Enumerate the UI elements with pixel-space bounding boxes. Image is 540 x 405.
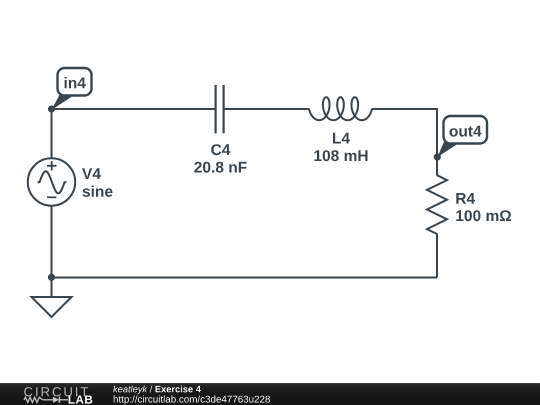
C4 value label 20.8 nF (194, 162, 246, 173)
node label in4: box (58, 68, 92, 96)
CircuitLab logo: CIRCUIT text (24, 387, 88, 396)
node dot: in4 junction (48, 105, 55, 112)
R4 reference label (456, 193, 475, 204)
wire: R4 bottom to bottom-right corner (436, 234, 438, 278)
node label in4: text (65, 77, 86, 88)
node label in4: pointer wedge (52, 95, 75, 110)
CircuitLab logo: wire to diode (43, 399, 53, 401)
V4 sine waveform (38, 171, 67, 193)
wire: C4 right plate to L4 left lead (224, 108, 310, 110)
resistor R4 (427, 175, 447, 234)
CircuitLab logo: LAB text (69, 396, 93, 404)
L4 reference label (333, 133, 350, 144)
CircuitLab logo: diode (53, 397, 59, 403)
V4 plus sign (47, 161, 57, 170)
wire: V4 bottom to ground node (51, 206, 53, 278)
wire: in4 node to C4 left plate (52, 108, 216, 110)
node label out4: pointer wedge (438, 142, 462, 157)
wire: ground stem (51, 278, 53, 298)
node dot: ground junction (48, 274, 55, 281)
inductor L4 (309, 97, 372, 120)
CircuitLab logo: resistor zigzag (24, 397, 43, 402)
wire: bottom rail (52, 277, 438, 279)
C4 reference label (211, 144, 230, 155)
V4 type label sine (83, 186, 113, 197)
V4 reference label (82, 168, 101, 179)
wire: out4 node to R4 top (436, 157, 438, 176)
node dot: out4 junction (434, 153, 441, 160)
wire: L4 right lead to top-right corner down to out4 node (372, 109, 437, 158)
footer url line (114, 395, 270, 404)
capacitor C4 (216, 85, 224, 133)
voltage source V4 circle (28, 158, 75, 205)
footer author/title line: keatleyk / Exercise 4 (113, 386, 201, 395)
node label out4: box (444, 116, 488, 144)
V4 minus sign (47, 196, 57, 198)
wire: in4 node down to V4 top (51, 109, 53, 159)
ground symbol (32, 297, 72, 317)
node label out4: text (450, 126, 482, 137)
L4 value label 108 mH (314, 150, 367, 161)
R4 value label 100 mOhm (456, 210, 511, 221)
